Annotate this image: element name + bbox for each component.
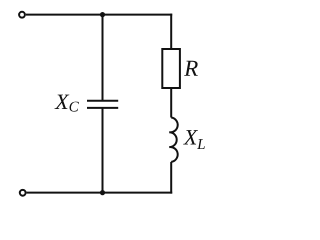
wire inductor to bottom rail (170, 162, 172, 194)
label R (184, 61, 198, 76)
wire top rail right segment (103, 14, 173, 16)
wire resistor to inductor (170, 88, 172, 118)
capacitor XC bottom plate (87, 107, 118, 109)
wire bottom rail left segment (27, 192, 103, 194)
wire middle branch upper (102, 15, 104, 100)
node junction bottom (100, 190, 105, 195)
label XL (183, 130, 205, 149)
wire top rail left segment (26, 14, 103, 16)
terminal circle top-left (19, 12, 25, 18)
node junction top (100, 12, 105, 17)
wire middle branch lower (102, 108, 104, 193)
resistor R body (162, 49, 180, 88)
terminal circle bottom-left (20, 190, 26, 196)
wire bottom rail right segment (103, 192, 173, 194)
wire right branch top (170, 14, 172, 49)
inductor XL coil (169, 118, 177, 162)
label XC (54, 95, 78, 112)
capacitor XC top plate (87, 100, 118, 102)
